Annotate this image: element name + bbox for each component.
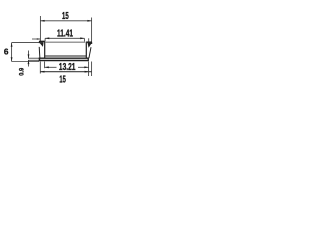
dim 0.9 ext upper [28,57,39,59]
profile left lip hook wedge [39,42,44,47]
svg-text:15: 15 [62,11,69,22]
dim 6 ext top [12,42,40,44]
profile right wall inner edge [85,43,87,58]
background [0,0,100,100]
profile right lip outer stub [91,42,93,44]
dim 0.9 line upper [28,51,30,59]
profile inner floor line [45,55,86,57]
dim top15 line [40,20,91,22]
arrow top15 right [87,20,91,22]
svg-text:13.21: 13.21 [59,62,76,73]
dim top15 ext right [91,18,93,43]
profile cover strip between lips [46,41,86,43]
dim 13.21 line left part [45,66,57,68]
dim 0.9 line lower [28,60,30,66]
profile base right end corner [88,58,89,61]
dim 11.41 line [45,37,84,39]
dim 0.9 ext lower [28,59,39,61]
profile base bottom thick line [39,60,89,62]
arrow bot15 left [40,71,44,73]
dim bot15 ext left [39,62,41,74]
svg-text:0.9: 0.9 [19,68,26,76]
arrow top15 left [40,20,44,22]
profile base top thick line [39,57,89,59]
svg-text:6: 6 [4,47,9,56]
dim 11.41 ext right [83,38,85,42]
arrow 0.9 up [28,60,30,64]
dim 11.41 ext right2 [88,38,90,42]
profile right lip hook wedge [88,43,92,48]
profile right lip top face [86,41,92,43]
arrow 0.9 down [28,54,30,58]
profile right wall outer lower edge [89,47,91,58]
arrow 13.21 right [84,66,88,68]
profile base left end corner [39,58,40,61]
svg-text:11.41: 11.41 [57,29,73,40]
svg-text:15: 15 [59,74,66,85]
dim 6 line [11,43,13,62]
profile left wall outer lower edge [38,47,41,58]
arrow bot15 right [85,71,89,73]
dim 11.41 ext left [44,38,46,41]
arrow 6 top [11,43,13,47]
profile left lip outer stub [38,41,40,43]
dim bot15 line [40,71,91,73]
dim 13.21 line right part [78,66,89,68]
arrow 13.21 left [45,66,49,68]
dim 6 ext bottom [12,61,39,63]
arrow 11.41 right [80,37,84,39]
dim bot15 ext right [91,62,93,77]
arrow 11.41 left [45,37,49,39]
profile left wall inner edge [44,42,46,58]
dim 13.21 ext left [44,62,46,69]
dim 11.41 stub left outside [32,38,40,40]
dim top15 ext left [39,16,41,41]
arrow 6 bottom [11,57,13,61]
dim 13.21 ext right [88,62,90,77]
arrow 11.41 stub [37,38,41,40]
profile left lip top face [39,40,45,42]
